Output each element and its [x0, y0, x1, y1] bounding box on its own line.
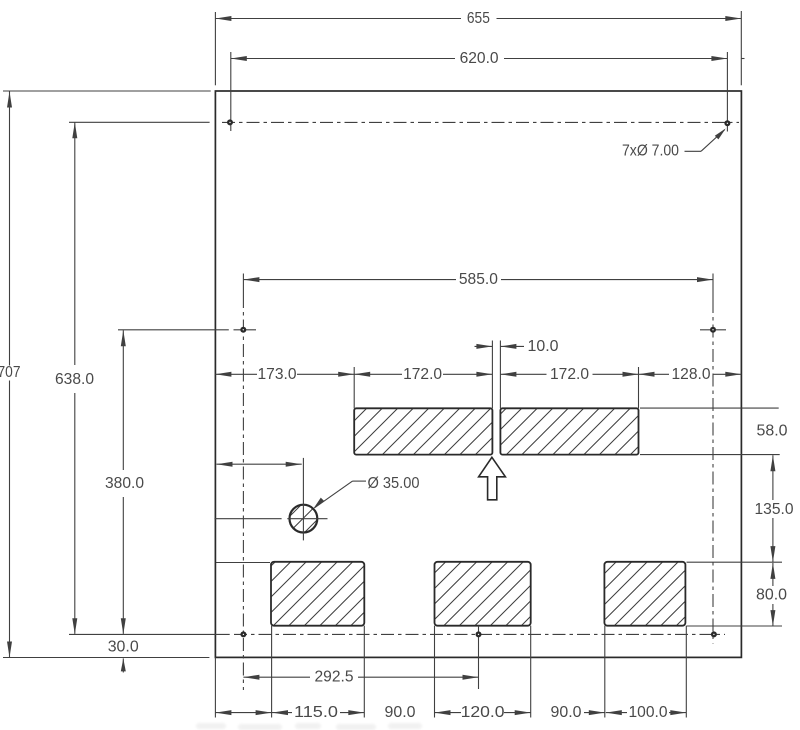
cutout bottom-3 (100x80) [604, 562, 685, 626]
ext line 620 right [726, 52, 728, 132]
right mid hole centerline (vertical dash-dot) [712, 274, 714, 301]
dimension 620.0 [231, 58, 455, 60]
faint artifact at bottom edge [196, 723, 422, 730]
dimension 172.0 second [500, 373, 546, 375]
svg-text:Ø 35.00: Ø 35.00 [368, 475, 420, 492]
ext line cutout3 left below [604, 626, 606, 718]
ext line bottom cutout top right [687, 561, 783, 563]
hole D35 vertical centerline [302, 458, 304, 541]
ext line mid-left hole to left [118, 329, 229, 331]
svg-text:638.0: 638.0 [55, 371, 94, 388]
hole D35 circle [290, 505, 318, 533]
svg-text:172.0: 172.0 [550, 366, 589, 383]
bottom hole centerline (horizontal dash-dot) [234, 633, 725, 635]
dimension edge-to-cutout (unlabeled) [215, 712, 271, 714]
svg-text:30.0: 30.0 [108, 638, 139, 655]
svg-text:115.0: 115.0 [294, 704, 338, 721]
ext line cutout2 right below [530, 626, 532, 718]
hole D35 horizontal centerline [214, 518, 281, 520]
svg-text:120.0: 120.0 [461, 704, 505, 721]
dimension 120.0 [435, 712, 462, 714]
dimension 135.0 [772, 455, 774, 500]
panel outline [215, 91, 741, 657]
ext line slot bottom right [640, 454, 780, 456]
ext line bottom cutout bottom right [687, 625, 783, 627]
svg-text:90.0: 90.0 [385, 704, 416, 721]
ext line cutout1 left below [271, 626, 273, 718]
ext line 620 left [230, 52, 232, 131]
svg-text:292.5: 292.5 [315, 669, 354, 686]
ext line panel left below [214, 657, 216, 717]
hole H4 mid-right [710, 327, 716, 333]
ext line 655 right [740, 11, 742, 85]
hole H6 bottom-mid [476, 631, 482, 637]
hole H2 top-right [724, 120, 730, 126]
ext line hole B2 vertical [478, 626, 480, 689]
ext line at slot right edge [638, 367, 640, 408]
svg-text:707: 707 [0, 364, 21, 381]
dimension 128.0 [639, 373, 670, 375]
svg-text:10.0: 10.0 [528, 338, 559, 355]
dimension 638.0 [74, 122, 76, 365]
hole H7 bottom-right [711, 631, 717, 637]
dimension 90.0 second [584, 712, 605, 714]
right mid hole crosshair [700, 329, 726, 331]
top hole centerline (horizontal dash-dot) [222, 121, 739, 123]
ext line cutout1 right below [363, 626, 365, 718]
dimension 585.0 [243, 279, 456, 281]
svg-text:655: 655 [467, 10, 490, 27]
svg-text:58.0: 58.0 [757, 422, 788, 439]
ext line slot top right [640, 407, 779, 409]
ext line gap right [499, 341, 501, 409]
cutout bottom-2 (120x80) [435, 562, 531, 626]
ext line gap left [491, 341, 493, 409]
cutout top-right (172x58) [500, 408, 638, 454]
ext line 655 left [214, 12, 216, 85]
cutout bottom-1 (115x80) [271, 562, 364, 626]
dimension 115.0 [272, 712, 292, 714]
dimension 172.0 first [354, 373, 402, 375]
dimension 292.5 [243, 676, 310, 678]
ext line cutout3 right below [685, 626, 687, 718]
dimension 80.0 [772, 563, 774, 586]
dimension 707 [9, 92, 11, 366]
ext line bottom holes to left [69, 633, 230, 635]
svg-text:620.0: 620.0 [460, 50, 499, 67]
svg-text:585.0: 585.0 [459, 271, 498, 288]
svg-text:380.0: 380.0 [105, 475, 144, 492]
ext line panel bottom to left [3, 657, 209, 659]
dimension 380.0 [122, 330, 124, 470]
left mid hole centerline (vertical dash-dot) [242, 274, 244, 296]
left mid hole crosshair [234, 329, 257, 331]
svg-text:7xØ 7.00: 7xØ 7.00 [622, 143, 679, 160]
hole H1 top-left [227, 119, 233, 125]
svg-text:90.0: 90.0 [551, 704, 582, 721]
ext line at slot left edge [353, 367, 355, 408]
svg-text:100.0: 100.0 [629, 704, 668, 721]
label D35.00 leader [353, 480, 367, 482]
dimension to hole D35 center [217, 463, 302, 465]
label 7xD7.00 leader [685, 150, 702, 152]
ext line top holes to left [69, 121, 210, 123]
ext line panel top to left [3, 90, 211, 92]
svg-text:173.0: 173.0 [258, 366, 297, 383]
ext line cutout2 left below [434, 626, 436, 718]
insertion arrow symbol (hollow up arrow) [479, 457, 506, 500]
hole H5 bottom-left [240, 631, 246, 637]
cutout top-left (172x58) [354, 408, 492, 454]
dimension 100.0 [606, 712, 627, 714]
dimension 173.0 [215, 373, 257, 375]
dimension 10.0 [475, 345, 493, 347]
dimension 655 [215, 18, 461, 20]
svg-text:128.0: 128.0 [672, 366, 711, 383]
svg-text:135.0: 135.0 [755, 501, 794, 518]
hole H3 mid-left [240, 327, 246, 333]
svg-text:172.0: 172.0 [403, 366, 442, 383]
svg-text:80.0: 80.0 [756, 586, 787, 603]
ext line panel edge to cutout [216, 562, 270, 564]
